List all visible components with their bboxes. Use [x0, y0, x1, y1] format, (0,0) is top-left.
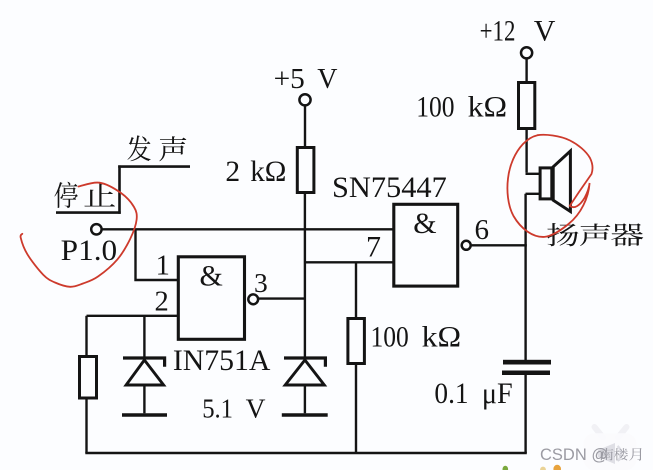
- label 100 kOhm upper: [416, 91, 507, 124]
- wire waveform low level (stop): [56, 211, 121, 214]
- ground rail wire: [85, 452, 527, 455]
- wire +12V to resistor: [525, 58, 527, 82]
- label P1.0: [61, 234, 117, 267]
- terminal +5 V: [299, 94, 310, 105]
- svg-text:+5: +5: [274, 64, 305, 95]
- svg-text:IN751A: IN751A: [173, 344, 271, 377]
- svg-text:V: V: [246, 393, 266, 424]
- gate U1 NAND body: [178, 257, 244, 340]
- wire +5V to resistor: [304, 105, 306, 146]
- resistor 100k lower body: [348, 319, 365, 364]
- svg-text:V: V: [317, 64, 337, 95]
- label 0.1 uF: [434, 378, 512, 410]
- svg-text:+12: +12: [480, 15, 516, 48]
- svg-text:3: 3: [254, 267, 268, 298]
- pin 6 label: [475, 214, 490, 246]
- capacitor C1 0.1uF: [502, 360, 551, 375]
- gate U2 NAND body: [394, 204, 458, 286]
- pin 1 label: [156, 251, 170, 282]
- wire down to resistor 100k lower: [355, 262, 357, 318]
- svg-text:&: &: [200, 259, 223, 292]
- svg-text:kΩ: kΩ: [468, 91, 508, 124]
- resistor R-left body: [80, 357, 97, 399]
- svg-text:2: 2: [155, 286, 169, 317]
- annotation red circle around speaker: [507, 135, 592, 237]
- speaker LS1: [526, 151, 571, 212]
- pin 3 label: [254, 267, 268, 298]
- annotation red circle around P1.0 stop: [21, 183, 137, 287]
- wire node to gate2 pin 7: [305, 261, 394, 263]
- gate U1 output bubble: [248, 294, 258, 304]
- label +12 V: [480, 15, 556, 48]
- wire resistor lower to rail: [355, 364, 357, 454]
- wire waveform rising edge: [118, 165, 121, 213]
- svg-text:kΩ: kΩ: [422, 321, 462, 354]
- label 发声 (sound): [127, 135, 186, 161]
- gate U2 ampersand: [413, 207, 436, 240]
- watermark 南楼月: [600, 448, 642, 461]
- wire waveform high level (sound): [118, 165, 190, 168]
- gate U2 output bubble: [462, 241, 471, 250]
- label 5.1 V: [202, 393, 265, 424]
- wire left branch to rail: [85, 400, 87, 454]
- resistor 2k body: [297, 148, 314, 193]
- svg-text:5.1: 5.1: [202, 393, 233, 424]
- svg-text:100: 100: [416, 91, 454, 124]
- label 2 kOhm: [225, 156, 286, 188]
- svg-text:P1.0: P1.0: [61, 234, 117, 267]
- wire left branch down: [85, 316, 87, 355]
- decorative bottom dots: [503, 465, 562, 470]
- wire resistor to speaker: [525, 129, 527, 173]
- label 100 kOhm lower: [371, 321, 462, 354]
- label 停止 (stop): [54, 182, 115, 208]
- svg-text:1: 1: [156, 251, 170, 282]
- svg-text:SN75447: SN75447: [332, 171, 447, 204]
- svg-text:2: 2: [225, 156, 240, 188]
- pin 2 label: [155, 286, 169, 317]
- wire P1.0 to NAND gate inputs: [102, 228, 392, 230]
- wire node vertical: [304, 194, 306, 358]
- wire speaker to capacitor node: [524, 194, 526, 360]
- zener diode D1 IN751A: [122, 316, 167, 415]
- watermark CSDN text: [540, 446, 608, 464]
- svg-text:V: V: [534, 15, 556, 48]
- svg-text:&: &: [413, 207, 436, 240]
- wire gate2 pin 6 to speaker node: [472, 244, 527, 246]
- terminal P1.0: [91, 224, 101, 234]
- terminal +12 V: [521, 47, 532, 58]
- label SN75447: [332, 171, 447, 204]
- wire branch to gate1 pin 1: [136, 229, 179, 280]
- svg-text:CSDN @: CSDN @: [540, 446, 608, 464]
- label IN751A: [173, 344, 271, 377]
- wire gate1 pin 3 to node: [259, 297, 306, 299]
- svg-text:μF: μF: [482, 378, 513, 410]
- zener diode D2: [282, 358, 328, 415]
- svg-text:kΩ: kΩ: [250, 156, 286, 188]
- gate U1 ampersand: [200, 259, 223, 292]
- watermark CSDN mascot: [584, 427, 637, 470]
- svg-text:6: 6: [475, 214, 490, 246]
- resistor 100k upper body: [519, 83, 535, 129]
- svg-text:0.1: 0.1: [434, 378, 468, 410]
- pin 7 label: [366, 231, 381, 264]
- wire gate1 pin 2: [87, 315, 179, 317]
- label +5 V: [274, 64, 338, 95]
- svg-text:7: 7: [366, 231, 381, 264]
- wire capacitor to rail: [524, 375, 526, 453]
- label 扬声器 (speaker): [547, 223, 643, 246]
- svg-text:100: 100: [371, 321, 409, 354]
